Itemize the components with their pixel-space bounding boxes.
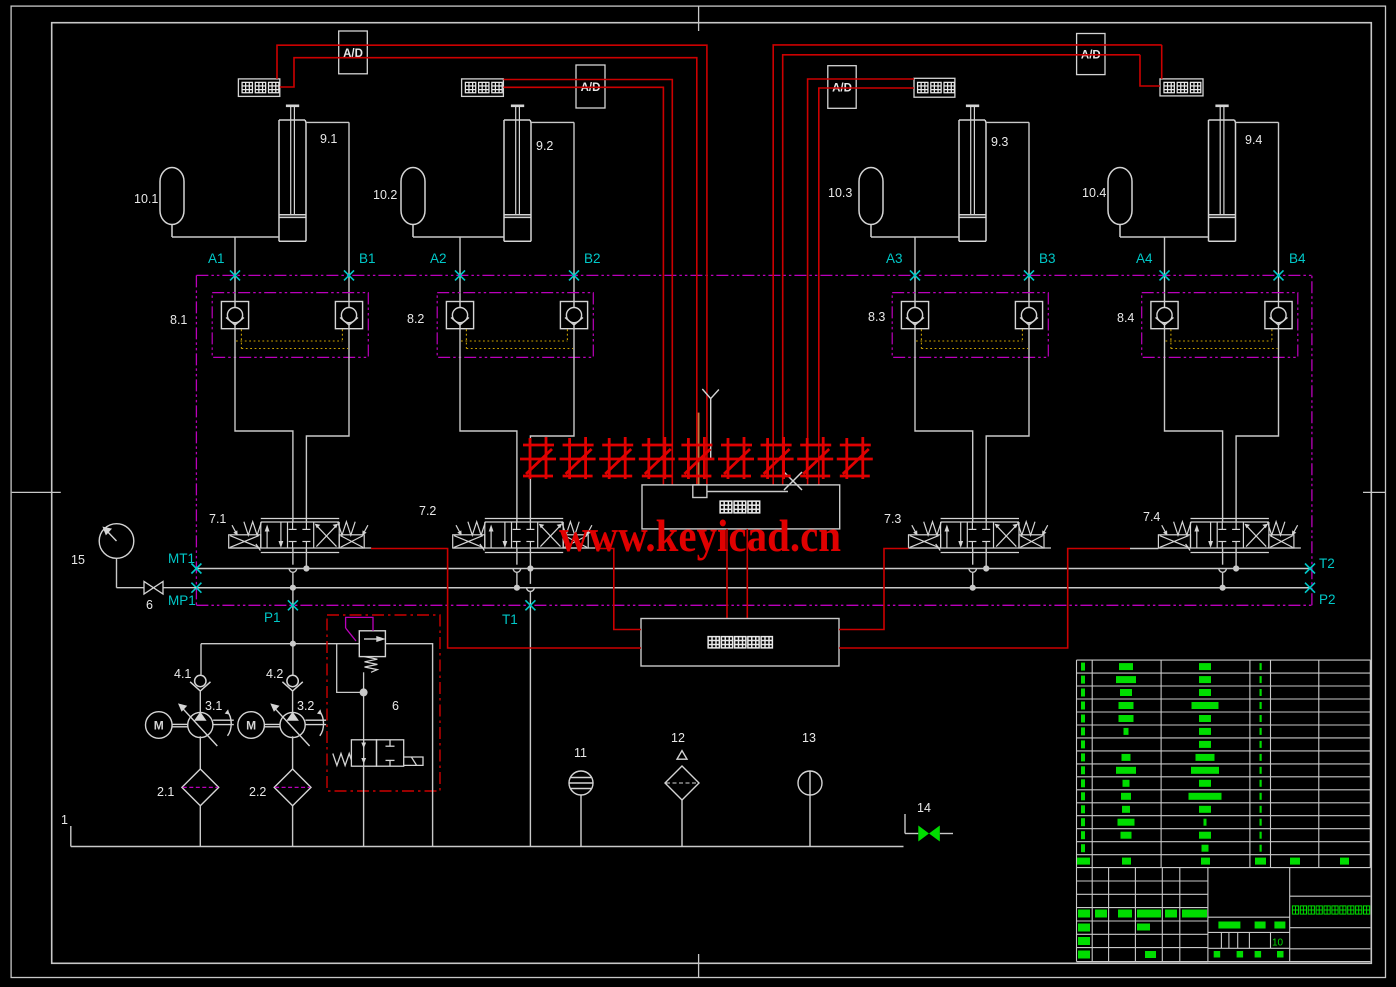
title block entries (green)	[1078, 910, 1285, 959]
node B2	[569, 251, 601, 280]
svg-text:8.1: 8.1	[170, 313, 187, 327]
node A4	[1136, 251, 1170, 280]
wire: tank line 1	[61, 813, 904, 847]
node MP1	[168, 583, 201, 608]
svg-text:4.1: 4.1	[174, 667, 191, 681]
accumulator 10.4	[1082, 168, 1132, 238]
node B3	[1024, 251, 1056, 280]
wire: amplifier to valve 7.3 solenoid (red)	[839, 549, 909, 630]
sensor 4	[1160, 79, 1203, 96]
svg-text:10.3: 10.3	[828, 186, 852, 200]
wire: cylinder 9.3 bottom port to node A3	[871, 237, 959, 302]
op valve 7.3	[884, 512, 1051, 553]
A/D converter U1	[339, 31, 368, 74]
wire: amplifier to valve 7.2 solenoid (red)	[596, 549, 641, 630]
wire: valve 7.1 T port to T rail	[303, 548, 309, 572]
hydraulic lock 8.4	[1117, 293, 1298, 358]
svg-text:6: 6	[392, 699, 399, 713]
drain valve 14 (green)	[905, 801, 953, 842]
wire: cylinder 9.2 bottom port to node A2	[413, 237, 504, 302]
svg-text:9.4: 9.4	[1245, 133, 1262, 147]
svg-text:8.3: 8.3	[868, 310, 885, 324]
wire: filters to tank rail	[200, 806, 292, 847]
svg-text:10.1: 10.1	[134, 192, 158, 206]
node A2	[430, 251, 465, 280]
svg-text:2.1: 2.1	[157, 785, 174, 799]
hydraulic lock 8.1	[170, 293, 368, 358]
svg-text:A2: A2	[430, 251, 447, 266]
pump 3.2 with motor M	[238, 699, 326, 746]
wire: valve 7.2 P port to P rail	[513, 548, 521, 591]
svg-text:3.2: 3.2	[297, 699, 314, 713]
svg-text:8.2: 8.2	[407, 312, 424, 326]
wire: valve 7.4 P port to P rail	[1219, 548, 1227, 591]
wire: gauge 15 to MP1	[117, 558, 197, 587]
wire: valve 7.2 T port to tank (node T1)	[527, 548, 535, 847]
svg-text:13: 13	[802, 731, 816, 745]
wire: relief valve remote pilot (magenta)	[346, 617, 373, 641]
svg-text:8.4: 8.4	[1117, 311, 1134, 325]
pump 3.1 with motor M	[146, 699, 234, 746]
svg-text:7.4: 7.4	[1143, 510, 1160, 524]
node B4	[1274, 251, 1307, 280]
svg-text:14: 14	[917, 801, 931, 815]
watermark text line 1 (youxiu biye sheji ziyuan wang)	[520, 437, 873, 479]
wire: pilot/drain phantom loop (magenta)	[196, 275, 1312, 605]
wire: lock 8.4 to valve 7.4 work ports	[1165, 329, 1279, 522]
relief valve group 6 boundary (red chain box)	[327, 615, 440, 791]
check valve 4.1	[174, 667, 211, 691]
svg-text:2.2: 2.2	[249, 785, 266, 799]
wire: T return rail	[196, 568, 1310, 570]
wire: unloading valve to tank	[363, 766, 365, 847]
wire: cylinder 9.4 bottom port to node A4	[1120, 237, 1209, 302]
wire: cylinder 9.2 rod port to node B2	[531, 122, 574, 301]
svg-text:10.2: 10.2	[373, 188, 397, 202]
wire: pump discharge rail	[201, 644, 359, 675]
node MT1	[168, 551, 201, 574]
cylinder 9.2	[504, 106, 553, 242]
svg-text:3.1: 3.1	[205, 699, 222, 713]
sensor 2	[462, 79, 504, 97]
svg-text:P2: P2	[1319, 592, 1336, 607]
shutoff valve 6a (gauge isolator)	[144, 581, 163, 612]
svg-text:A3: A3	[886, 251, 903, 266]
wire: lock 8.1 to valve 7.1 work ports	[235, 329, 349, 522]
node T1	[502, 600, 535, 627]
svg-text:4.2: 4.2	[266, 667, 283, 681]
thermometer 13	[798, 731, 822, 847]
title block grid	[1077, 868, 1371, 962]
parts list entries (green)	[1077, 663, 1349, 865]
wire: cylinder 9.1 rod port to node B1	[306, 122, 349, 301]
accumulator 10.3	[828, 168, 883, 238]
relief valve 6 body	[359, 631, 399, 713]
cylinder 9.1	[279, 106, 337, 242]
node T2	[1305, 556, 1335, 574]
wire: sensor2 to A/D U2 (red)	[503, 80, 672, 485]
wire: cylinder 9.4 rod port to node B4	[1236, 122, 1279, 301]
svg-text:T2: T2	[1319, 556, 1335, 571]
svg-text:www.keyicad.cn: www.keyicad.cn	[559, 511, 841, 561]
sensor 3	[914, 78, 955, 97]
wire: computer to amplifier (red)	[727, 529, 747, 619]
svg-text:10.4: 10.4	[1082, 186, 1106, 200]
wire: pumps to filters	[200, 736, 292, 769]
svg-text:12: 12	[671, 731, 685, 745]
svg-text:1: 1	[61, 813, 68, 827]
node A3	[886, 251, 920, 280]
drawing title text (green)	[1292, 906, 1369, 914]
svg-text:MP1: MP1	[168, 593, 196, 608]
svg-text:A4: A4	[1136, 251, 1153, 266]
svg-text:B1: B1	[359, 251, 376, 266]
wire: cylinder 9.3 rod port to node B3	[986, 122, 1029, 301]
svg-text:P1: P1	[264, 610, 281, 625]
wire: lock 8.2 to valve 7.2 work ports	[460, 329, 574, 522]
A/D converter U4	[1077, 34, 1105, 75]
svg-text:9.1: 9.1	[320, 132, 337, 146]
A/D converter U2	[576, 65, 605, 108]
svg-text:B2: B2	[584, 251, 601, 266]
wire: lock 8.3 to valve 7.3 work ports	[915, 329, 1029, 522]
cylinder 9.4	[1209, 106, 1263, 242]
X mark at computer top	[784, 472, 802, 490]
op valve 7.2	[419, 504, 595, 553]
svg-text:9.2: 9.2	[536, 139, 553, 153]
level gauge 11	[569, 746, 593, 847]
op valve 7.4	[1143, 510, 1301, 553]
svg-text:A1: A1	[208, 251, 225, 266]
wire: valve 7.1 P port to pump line (node P1)	[289, 548, 297, 675]
wire: relief valve pilot branch	[337, 644, 368, 740]
filter 2.2	[249, 769, 311, 806]
node B1	[344, 251, 376, 280]
svg-text:6: 6	[146, 598, 153, 612]
node P2	[1305, 583, 1336, 607]
filter 2.1	[157, 769, 219, 806]
wire: sensor3 to A/D U3 (red)	[808, 79, 914, 485]
svg-text:7.1: 7.1	[209, 512, 226, 526]
op valve 7.1 (proportional directional valve)	[209, 512, 371, 553]
wire: amplifier to valve 7.4 solenoid (red)	[839, 549, 1158, 649]
sensor 1 (chuanganqi)	[238, 79, 279, 97]
wire: sensor1 to A/D U1 (red)	[277, 45, 707, 485]
wire: cylinder 9.1 bottom port to node A1	[172, 237, 279, 302]
svg-text:9.3: 9.3	[991, 135, 1008, 149]
hydraulic lock 8.2	[407, 293, 593, 358]
wire: valve 7.4 T port to T rail	[1233, 548, 1239, 572]
node P1	[264, 600, 298, 625]
parts list table grid	[1077, 660, 1371, 868]
wire: valve 7.3 P port to P rail	[969, 548, 977, 591]
wire: amplifier to valve 7.1 solenoid (red)	[371, 549, 641, 649]
svg-text:MT1: MT1	[168, 551, 195, 566]
svg-text:T1: T1	[502, 612, 518, 627]
accumulator 10.2	[373, 168, 425, 238]
svg-text:10: 10	[1272, 938, 1284, 949]
node A1	[208, 251, 240, 280]
wire: relief valve outlet to tank	[385, 644, 432, 847]
svg-text:7.2: 7.2	[419, 504, 436, 518]
proportional amplifier box (bilifangdaqi)	[641, 619, 839, 667]
wire: sensor4 to A/D U4 (red)	[773, 45, 1161, 485]
svg-text:7.3: 7.3	[884, 512, 901, 526]
svg-text:15: 15	[71, 553, 85, 567]
wire: antenna lead (orange)	[698, 413, 700, 485]
hydraulic lock 8.3	[868, 293, 1048, 358]
svg-text:B3: B3	[1039, 251, 1056, 266]
computer box (jisuanji)	[642, 485, 840, 529]
wire: P pressure rail	[196, 587, 1310, 589]
air breather filter 12	[665, 731, 699, 847]
unloading solenoid valve (2/2)	[333, 740, 423, 766]
check valve 4.2	[266, 667, 303, 691]
accumulator 10.1	[134, 168, 184, 238]
antenna Y	[702, 389, 719, 460]
wire: valve 7.3 T port to T rail	[983, 548, 989, 572]
wire: check valves to pumps	[200, 691, 292, 714]
svg-text:B4: B4	[1289, 251, 1306, 266]
pressure gauge 15	[71, 524, 134, 567]
A/D converter U3	[828, 66, 856, 109]
cylinder 9.3	[959, 106, 1008, 242]
svg-text:11: 11	[574, 746, 587, 760]
